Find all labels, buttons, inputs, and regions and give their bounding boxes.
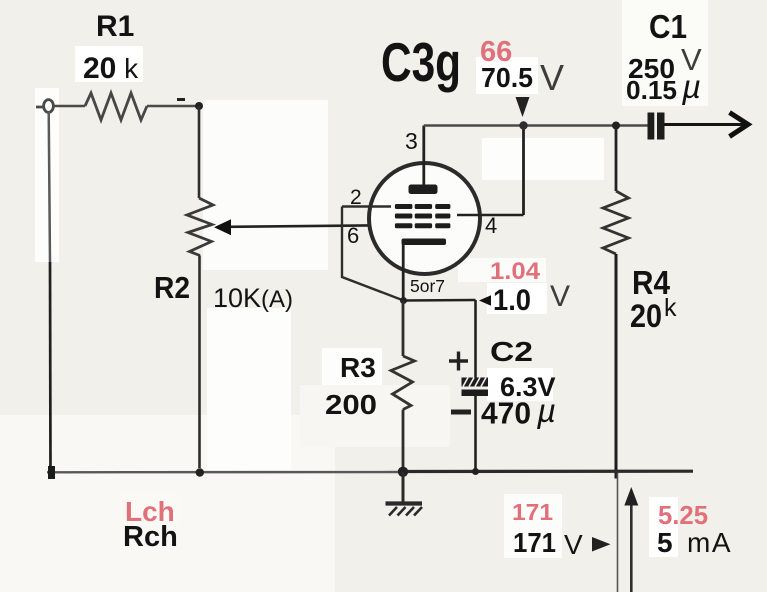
svg-text:V: V bbox=[540, 57, 564, 98]
svg-text:70.5: 70.5 bbox=[481, 62, 533, 93]
svg-text:6: 6 bbox=[347, 223, 359, 248]
small mark near node A bbox=[177, 98, 185, 101]
svg-text:C3g: C3g bbox=[381, 31, 461, 93]
svg-text:2: 2 bbox=[350, 186, 362, 209]
svg-text:5or7: 5or7 bbox=[410, 276, 445, 296]
svg-text:3: 3 bbox=[405, 128, 418, 154]
wire R4 top bbox=[615, 126, 618, 192]
capacitor C1 bbox=[648, 113, 655, 140]
shield outline (pin 2 to cathode node) bbox=[342, 207, 404, 301]
op tube C3g envelope U1 bbox=[369, 163, 480, 274]
wire node A down to R2 bbox=[198, 106, 201, 198]
svg-text:20: 20 bbox=[630, 298, 662, 334]
node B (plate measurement point) bbox=[519, 121, 527, 129]
wire cathode node to C2 bbox=[404, 299, 476, 302]
cathode lead down bbox=[402, 244, 405, 301]
node K (cathode junction 5or7) bbox=[400, 297, 407, 304]
resistor R1 bbox=[85, 93, 147, 120]
measurement arrow down (70.5V) bbox=[516, 97, 530, 117]
svg-text:µ: µ bbox=[536, 392, 556, 429]
cathode bar bbox=[402, 239, 447, 246]
svg-text:4: 4 bbox=[485, 213, 497, 238]
node rail-C2 bbox=[472, 468, 479, 475]
svg-text:10K(A): 10K(A) bbox=[213, 283, 293, 313]
top wire plate to C1 bbox=[424, 124, 649, 127]
svg-text:200: 200 bbox=[325, 389, 377, 420]
svg-text:171: 171 bbox=[513, 527, 556, 558]
svg-text:V: V bbox=[550, 280, 570, 313]
node A (R1/R2 junction) bbox=[195, 102, 203, 110]
resistor R2 (potentiometer) bbox=[187, 198, 213, 256]
resistor R3 bbox=[391, 356, 415, 410]
svg-text:171: 171 bbox=[512, 499, 553, 525]
svg-text:5.25: 5.25 bbox=[658, 500, 708, 530]
svg-text:20 k: 20 k bbox=[83, 52, 139, 85]
plate lead to top wire bbox=[422, 126, 425, 186]
label minus bbox=[451, 410, 471, 415]
pin 4 stub and wire up bbox=[457, 214, 524, 217]
svg-text:1.04: 1.04 bbox=[490, 258, 541, 285]
svg-text:Rch: Rch bbox=[123, 521, 178, 553]
wire left vertical (input down to rail) bbox=[49, 112, 50, 263]
plate (anode) bbox=[409, 185, 438, 195]
wire R3 down to rail bbox=[402, 410, 405, 471]
resistor R4 bbox=[603, 191, 629, 254]
wire C2 lead down bbox=[474, 300, 477, 378]
ground bbox=[386, 472, 423, 516]
capacitor C2 (electrolytic) bbox=[462, 378, 489, 397]
svg-text:R2: R2 bbox=[154, 270, 190, 305]
wire input to R1 bbox=[53, 105, 85, 108]
wire R3 top bbox=[402, 301, 405, 357]
wire R1 to node A bbox=[147, 105, 199, 108]
svg-text:µ: µ bbox=[681, 68, 701, 105]
pin 2 stub bbox=[342, 205, 391, 207]
svg-text:R1: R1 bbox=[96, 10, 134, 43]
thin line continuing below rail bbox=[617, 472, 619, 592]
R2 wiper arrow bbox=[214, 219, 391, 235]
svg-text:R3: R3 bbox=[340, 352, 376, 383]
svg-text:0.15: 0.15 bbox=[626, 75, 677, 105]
bottom rail wire bbox=[47, 471, 398, 474]
svg-text:C2: C2 bbox=[490, 336, 533, 367]
current arrow up (5mA) bbox=[630, 500, 633, 592]
node rail-R2 bbox=[196, 468, 204, 476]
wire R4 down to rail bbox=[615, 254, 618, 479]
node rail-R3 bbox=[398, 467, 408, 477]
grid (3x3 dashes) bbox=[395, 204, 451, 228]
node IN (input terminal) bbox=[36, 100, 53, 113]
wire R2 down to rail bbox=[198, 256, 201, 469]
node C (C1/R4 junction) bbox=[612, 122, 620, 130]
svg-text:V: V bbox=[564, 529, 583, 560]
svg-text:470: 470 bbox=[481, 396, 531, 431]
label + bbox=[449, 352, 468, 371]
svg-text:mA: mA bbox=[687, 527, 732, 558]
svg-text:5: 5 bbox=[657, 527, 673, 558]
svg-text:C1: C1 bbox=[649, 8, 687, 45]
svg-text:k: k bbox=[664, 294, 677, 322]
output wire with arrow bbox=[665, 123, 745, 126]
svg-text:1.0: 1.0 bbox=[493, 284, 531, 317]
wire C2 to rail bbox=[474, 395, 477, 470]
measurement arrow left (1.0V) bbox=[479, 295, 491, 305]
